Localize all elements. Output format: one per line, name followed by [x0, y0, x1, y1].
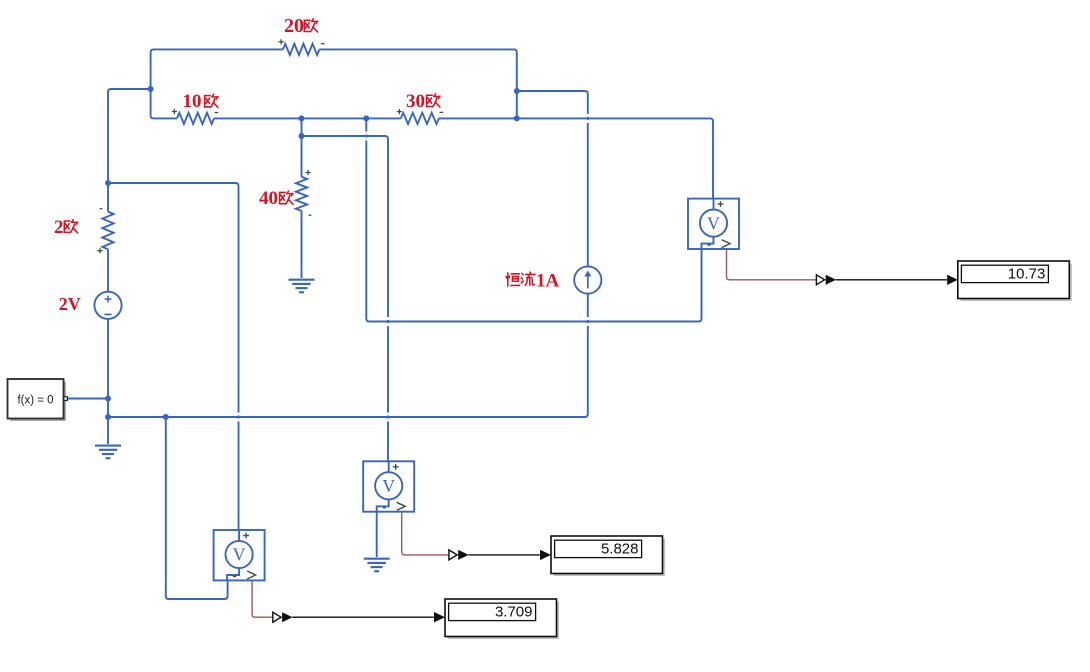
svg-text:2: 2: [54, 217, 64, 238]
svg-text:20: 20: [284, 15, 304, 37]
svg-text:V: V: [382, 476, 395, 496]
svg-text:1A: 1A: [536, 271, 560, 292]
svg-text:5.828: 5.828: [601, 541, 639, 558]
svg-text:40: 40: [259, 188, 278, 209]
svg-text:V: V: [233, 545, 246, 565]
svg-text:V: V: [707, 213, 720, 233]
svg-text:3.709: 3.709: [495, 604, 533, 621]
svg-text:30: 30: [406, 91, 425, 112]
svg-text:2V: 2V: [59, 294, 81, 314]
svg-text:10: 10: [183, 91, 202, 112]
svg-text:10.73: 10.73: [1008, 266, 1046, 283]
svg-text:f(x) = 0: f(x) = 0: [17, 395, 53, 407]
